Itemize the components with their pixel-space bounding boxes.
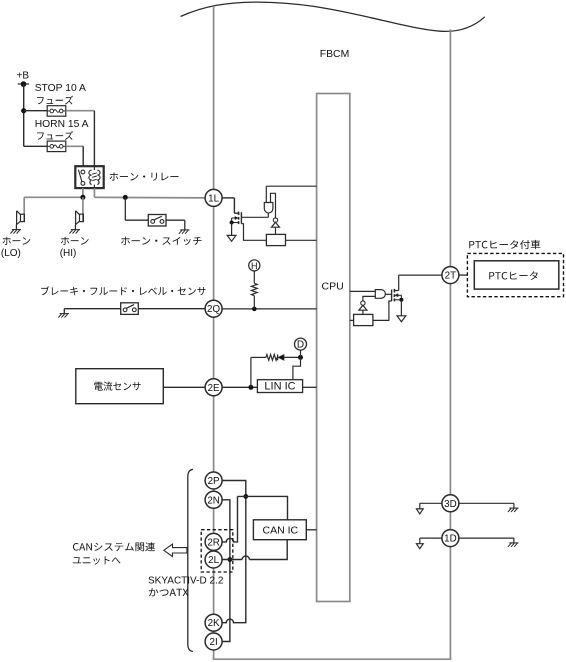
boundary dashed PTC option box (467, 253, 563, 296)
resistor LIN pull-up (251, 355, 277, 361)
connector 3D (442, 495, 459, 512)
connector 1L (205, 189, 222, 206)
wire CPU to AND gate input (PTC) (350, 290, 376, 292)
junction CAN-L at 2L (228, 557, 233, 562)
junction Q1 source-body (230, 221, 234, 225)
svg-text:+B: +B (17, 70, 30, 81)
svg-text:1L: 1L (208, 193, 219, 204)
svg-text:D: D (297, 340, 304, 351)
wire sense element to CPU (PTC) (350, 319, 354, 321)
component sense element (1L driver) (266, 234, 285, 245)
wire 1D to internal ground (420, 538, 442, 544)
wire +B feed vertical (23, 84, 25, 146)
ground chassis horn switch (179, 230, 190, 234)
wire 1L to MOSFET drain (222, 198, 238, 213)
connector 2L (205, 551, 222, 568)
label horn relay (110, 173, 179, 181)
diode LIN pull-up (278, 355, 301, 361)
wire CPU to AND gate input (266, 186, 316, 202)
label HORN 15 A (35, 119, 89, 130)
node D circled (295, 338, 307, 357)
wire horn HI drop (82, 197, 84, 221)
svg-text:2R: 2R (207, 537, 220, 548)
svg-text:2L: 2L (208, 555, 219, 566)
wire horn relay switch output (24, 188, 83, 221)
boundary dashed 2R-2L option box (201, 530, 233, 572)
wire 2Q to CPU (222, 308, 317, 310)
label fuse (HORN) (37, 131, 73, 140)
CPU U1 box (317, 94, 350, 602)
ground chassis 1D (508, 543, 519, 547)
junction horn switch branch (123, 195, 128, 200)
ground chassis horn LO (10, 225, 21, 234)
wire horn switch branch (125, 197, 148, 220)
connector 2P (205, 472, 222, 489)
svg-text:SKYACTIV-D 2.2: SKYACTIV-D 2.2 (148, 576, 224, 587)
svg-text:LIN IC: LIN IC (264, 380, 295, 392)
wire node D to LIN IC (293, 357, 301, 379)
svg-text:H: H (251, 261, 258, 271)
svg-text:CAN IC: CAN IC (263, 525, 299, 537)
junction +B to STOP fuse (21, 108, 26, 113)
FBCM bottom boundary wire (213, 658, 452, 660)
wire sense element to CPU (286, 239, 317, 241)
ground chassis 3D (508, 508, 519, 512)
svg-text:2N: 2N (207, 495, 220, 506)
ground internal 1D (416, 544, 423, 549)
wire CAN-H bus 2P to 2K (222, 481, 246, 623)
wire HORN fuse to horn relay switch (66, 146, 83, 166)
connector 2K (205, 614, 222, 631)
FBCM left boundary wire (213, 6, 215, 659)
svg-text:STOP 10 A: STOP 10 A (35, 83, 86, 94)
label CAN system related units (73, 542, 155, 565)
svg-text:2P: 2P (208, 476, 220, 487)
svg-text:FBCM: FBCM (320, 49, 349, 60)
svg-text:HORN 15 A: HORN 15 A (35, 119, 89, 130)
connector 2Q (205, 300, 222, 317)
wire inverter to AND gate input (PTC) (363, 296, 375, 301)
junction LIN pull-up left (248, 385, 253, 390)
power +B label (17, 70, 30, 81)
wire inverter to AND gate input (271, 193, 276, 218)
ground chassis horn HI (69, 225, 80, 234)
wire Q2 to current sense box (373, 301, 392, 320)
horn speaker HI (76, 211, 84, 225)
component sense element (PTC driver) (354, 314, 373, 325)
wire +B to STOP fuse (24, 110, 48, 112)
wire 1D to chassis ground (459, 538, 514, 543)
ground internal 3D (416, 509, 423, 514)
wire STOP fuse to horn relay coil (66, 111, 95, 167)
component PTC heater box (474, 261, 559, 289)
label PTC heater equipped vehicles (469, 240, 540, 249)
wire CAN-L bus 2N to 2I (222, 500, 230, 642)
svg-text:(HI): (HI) (60, 248, 77, 259)
ground chassis brake sensor (58, 309, 69, 318)
FBCM label (320, 49, 349, 60)
label horn switch (121, 237, 202, 246)
arrow to CAN system related units (164, 544, 187, 556)
wire 2T to MOSFET drain (PTC driver) (395, 275, 442, 290)
junction horn HI feed (80, 195, 85, 200)
gate U5 inverter with bubble (PTC driver) (359, 301, 367, 315)
wire CAN-H to CAN IC and 2R (222, 496, 287, 542)
svg-text:3D: 3D (444, 499, 457, 510)
wire Q2 source to internal ground (400, 300, 402, 316)
wire CAN IC to CPU (306, 529, 316, 531)
IC CAN transceiver box (253, 520, 306, 540)
label horn LO (1, 237, 30, 259)
FBCM module top boundary (torn edge wavy line) (181, 2, 485, 31)
connector 2N (205, 491, 222, 508)
label brake fluid level sensor (41, 286, 206, 295)
node H circled (249, 260, 260, 271)
wire brake sensor to 2Q (138, 308, 205, 310)
relay horn relay box (75, 166, 103, 188)
junction node D (298, 355, 303, 360)
transistor Q1 horn relay driver MOSFET (232, 212, 242, 225)
ground internal Q1 source (227, 235, 236, 241)
svg-text:2Q: 2Q (207, 304, 220, 315)
svg-text:2I: 2I (210, 637, 218, 648)
connector 2E (205, 379, 222, 396)
component current sensor box (76, 369, 164, 404)
wire 3D to chassis ground (459, 503, 514, 508)
wire 2E to LIN IC (222, 386, 257, 388)
svg-text:1D: 1D (444, 534, 457, 545)
junction CAN-H to CAN IC (243, 494, 248, 499)
gate U3 inverter with bubble (1L driver) (272, 218, 280, 234)
connector 2I (205, 633, 222, 650)
label SKYACTIV-D 2.2 with ATX (148, 576, 224, 597)
gate U2 AND (1L driver) (264, 203, 273, 214)
wire 3D to internal ground (420, 503, 442, 509)
wire Q1 source to internal ground (231, 223, 233, 236)
junction pull-up resistor node (252, 307, 257, 312)
label STOP 10 A (35, 83, 86, 94)
wire horn switch to ground (166, 220, 185, 230)
wire ground to brake sensor switch (64, 308, 120, 310)
junction Q2 source-body (399, 298, 403, 302)
connector 2T (442, 267, 459, 284)
wire Q1 to current sense box (241, 224, 266, 241)
transistor Q2 PTC heater driver MOSFET (392, 289, 402, 302)
wire horn relay coil to 1L (94, 188, 205, 198)
fuse STOP 10 A (47, 106, 66, 117)
svg-text:2E: 2E (208, 383, 220, 394)
label fuse (STOP) (37, 96, 73, 105)
FBCM right boundary wire (449, 29, 451, 659)
ground internal Q2 source (397, 316, 406, 322)
relay horn relay contact (78, 170, 84, 186)
svg-text:(LO): (LO) (1, 248, 21, 259)
wire current sensor to 2E (163, 386, 205, 388)
power +B terminal dot (18, 81, 29, 87)
gate U4 AND (PTC driver) (375, 290, 385, 299)
horn speaker LO (17, 211, 25, 225)
wire CAN-L to CAN IC via 2L (222, 540, 287, 560)
wire Q1 gate from AND gate (241, 213, 268, 217)
fuse HORN 15 A (47, 141, 66, 152)
wire 2T to PTC heater (459, 274, 468, 276)
label horn HI (60, 237, 89, 259)
wire Q2 gate from AND gate (386, 293, 392, 295)
IC LIN transceiver box (257, 380, 302, 393)
resistor pull-up (2Q) (251, 271, 257, 309)
svg-text:2K: 2K (208, 618, 220, 629)
relay horn relay coil (89, 166, 100, 188)
svg-text:CPU: CPU (322, 280, 344, 292)
switch brake fluid level sensor (121, 303, 139, 315)
wire +B to HORN fuse (24, 145, 48, 147)
wire LIN pull-up left riser (250, 357, 252, 387)
bracket CAN related units group (188, 469, 193, 651)
svg-text:2T: 2T (445, 271, 456, 282)
connector 2R (205, 533, 222, 550)
wire LIN IC to CPU (303, 386, 317, 388)
switch horn switch (148, 215, 166, 227)
connector 1D (442, 530, 459, 547)
